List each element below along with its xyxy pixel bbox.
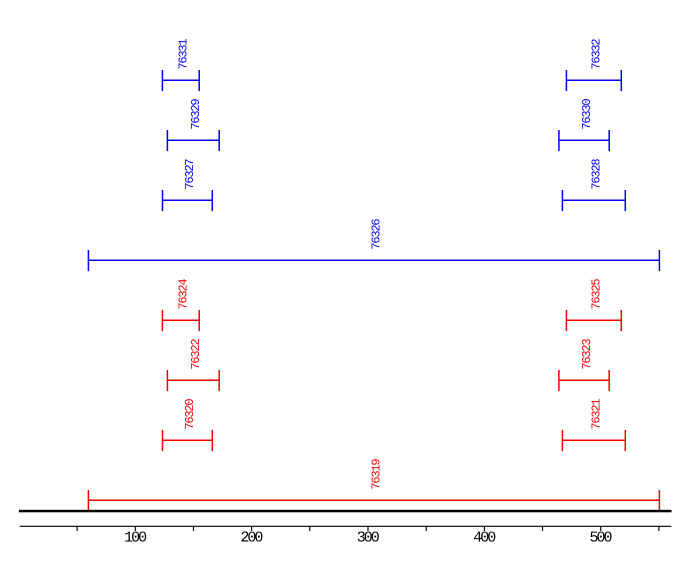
svg-text:100: 100	[124, 529, 147, 546]
axis tick 150	[193, 526, 195, 531]
axis tick 300	[367, 526, 369, 531]
axis tick 200	[251, 526, 253, 531]
axis tick 450	[542, 526, 544, 531]
svg-text:76320: 76320	[183, 399, 197, 430]
feature bar 76323 (red interval)	[559, 370, 609, 391]
svg-text:76324: 76324	[177, 279, 191, 310]
feature bar 76329 (blue interval)	[167, 130, 219, 151]
svg-text:200: 200	[240, 529, 263, 546]
axis tick 500	[600, 526, 602, 531]
svg-text:500: 500	[589, 529, 612, 546]
feature bar 76328 (blue interval)	[562, 190, 625, 211]
svg-text:76319: 76319	[370, 459, 384, 490]
svg-text:76331: 76331	[177, 39, 191, 70]
feature bar 76324 (red interval)	[162, 310, 199, 331]
feature bar 76320 (red interval)	[163, 430, 213, 451]
axis line	[20, 525, 672, 527]
svg-text:76325: 76325	[590, 279, 604, 310]
svg-text:76332: 76332	[590, 39, 604, 70]
axis tick 400	[483, 526, 485, 531]
svg-text:76323: 76323	[580, 339, 594, 370]
feature bar 76319 (red interval)	[88, 490, 659, 511]
svg-text:76330: 76330	[580, 99, 594, 130]
feature bar 76325 (red interval)	[566, 310, 621, 331]
svg-text:76322: 76322	[189, 339, 203, 370]
feature bar 76326 (blue interval)	[88, 250, 659, 271]
svg-text:76327: 76327	[183, 159, 197, 190]
svg-text:300: 300	[357, 529, 380, 546]
feature bar 76321 (red interval)	[562, 430, 625, 451]
feature bar 76331 (blue interval)	[162, 70, 199, 91]
axis tick 100	[134, 526, 136, 531]
svg-text:76326: 76326	[370, 219, 384, 250]
svg-text:76329: 76329	[189, 99, 203, 130]
axis tick 550	[658, 526, 660, 531]
thick baseline bar	[19, 510, 672, 513]
axis tick 350	[425, 526, 427, 531]
feature bar 76332 (blue interval)	[566, 70, 621, 91]
feature bar 76327 (blue interval)	[163, 190, 213, 211]
svg-text:76328: 76328	[590, 159, 604, 190]
axis tick 250	[309, 526, 311, 531]
axis tick 50	[76, 526, 78, 531]
feature bar 76330 (blue interval)	[559, 130, 609, 151]
feature bar 76322 (red interval)	[167, 370, 219, 391]
svg-text:400: 400	[473, 529, 496, 546]
svg-text:76321: 76321	[590, 399, 604, 430]
